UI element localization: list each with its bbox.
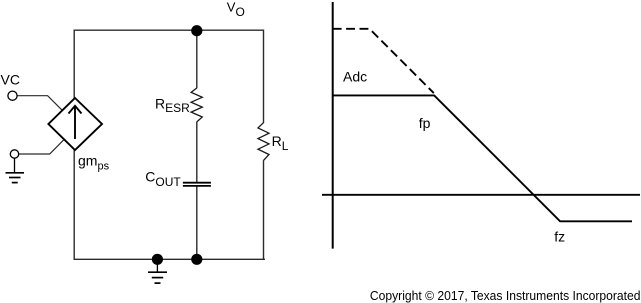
svg-text:COUT: COUT (145, 169, 181, 189)
svg-text:fz: fz (554, 228, 565, 244)
svg-text:fp: fp (419, 115, 431, 131)
wire lower-left input (19, 140, 64, 154)
terminal circle VC (8, 91, 17, 100)
wire VC input (17, 96, 62, 111)
resistor R_L (258, 123, 269, 161)
wire right branch lower (263, 160, 265, 260)
ground left (6, 158, 25, 182)
svg-text:Copyright © 2017, Texas Instru: Copyright © 2017, Texas Instruments Inco… (370, 288, 641, 303)
svg-text:RL: RL (272, 133, 289, 153)
terminal circle lower-left (10, 150, 18, 158)
svg-text:gmps: gmps (78, 152, 110, 172)
node dot bottom ground (152, 254, 163, 265)
wire left branch upper (73, 30, 75, 100)
current source arrow (69, 106, 82, 139)
graph vertical axis (332, 2, 334, 249)
wire right branch upper (263, 30, 265, 124)
capacitor C_OUT (183, 183, 211, 186)
wire middle branch upper (196, 30, 198, 88)
resistor R_ESR (191, 88, 202, 122)
ground bottom (148, 259, 167, 283)
dependent current source gm_ps diamond (48, 98, 102, 150)
wire top rail (74, 29, 264, 31)
wire bottom rail (74, 258, 266, 260)
node dot bottom middle (191, 254, 202, 265)
wire middle branch lower (196, 186, 198, 259)
svg-text:Adc: Adc (343, 68, 367, 84)
svg-text:VC: VC (1, 71, 20, 87)
svg-text:RESR: RESR (155, 95, 190, 115)
graph horizontal axis (322, 194, 640, 196)
dashed gain asymptote (333, 29, 434, 93)
node dot V_O (191, 25, 202, 36)
solid gain curve (333, 95, 632, 221)
svg-text:VO: VO (227, 0, 245, 19)
wire left branch lower (73, 150, 75, 260)
wire middle branch mid (196, 122, 198, 183)
